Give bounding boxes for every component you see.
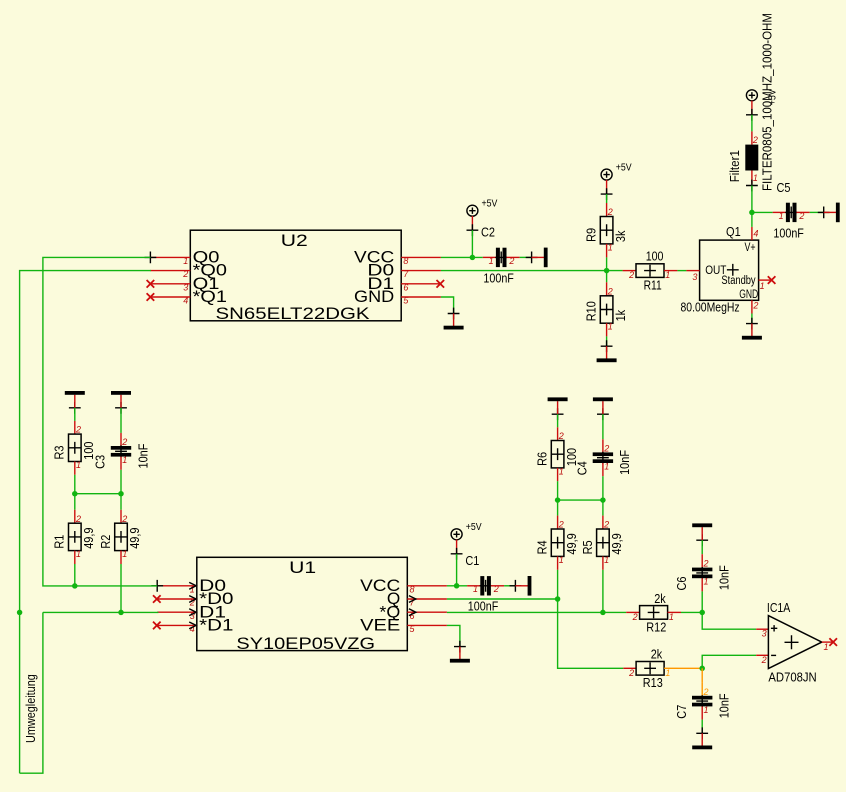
ground below C7 bbox=[692, 727, 712, 749]
op-amp IC1A triangle bbox=[768, 616, 821, 669]
U1 pin 4 clock arrow bbox=[189, 622, 196, 629]
wire node to C7 (highlight) bbox=[701, 668, 703, 683]
Filter1 origin cross bbox=[746, 180, 758, 192]
IC1A + input mark bbox=[771, 625, 777, 631]
resistor R13 2k bbox=[628, 647, 670, 691]
svg-text:10nF: 10nF bbox=[717, 693, 732, 718]
svg-text:2: 2 bbox=[761, 655, 767, 665]
svg-text:49,9: 49,9 bbox=[609, 533, 624, 554]
svg-text:1: 1 bbox=[183, 256, 188, 266]
wire ground to C3 bbox=[120, 408, 122, 433]
svg-text:2k: 2k bbox=[654, 591, 666, 606]
svg-text:Q1: Q1 bbox=[726, 225, 741, 239]
junction filter/C5/Q1 bbox=[749, 210, 755, 216]
wire U2 VCC to C2 bbox=[441, 256, 483, 258]
svg-text:2: 2 bbox=[703, 559, 709, 569]
svg-text:C7: C7 bbox=[674, 705, 689, 719]
wire +5V to U1 VCC net bbox=[456, 554, 458, 586]
svg-text:10nF: 10nF bbox=[617, 450, 632, 475]
C6 pin 1 stub bbox=[701, 578, 703, 591]
svg-text:4: 4 bbox=[753, 228, 758, 238]
C2 pin 1 stub bbox=[483, 256, 496, 258]
svg-text:R6: R6 bbox=[535, 452, 550, 466]
junction VCC/C2/+5V bbox=[470, 255, 476, 261]
wire ground to R3 bbox=[74, 408, 76, 421]
junction on detour net bbox=[17, 610, 23, 616]
R12 pin 2 stub bbox=[626, 611, 639, 613]
svg-text:100nF: 100nF bbox=[483, 270, 514, 285]
U1 pin 3 clock arrow bbox=[189, 609, 196, 616]
resistor R5 49,9 bbox=[580, 520, 624, 565]
U2 pin *Q1 no-connect X bbox=[147, 293, 155, 301]
Q1 origin cross bbox=[727, 264, 739, 276]
wire R11 to Q1 OUT bbox=[677, 270, 686, 272]
svg-text:C6: C6 bbox=[674, 577, 689, 591]
wire C1 to ground bbox=[504, 585, 515, 587]
svg-text:R3: R3 bbox=[52, 446, 67, 460]
wire Q1 GND pin to ground bbox=[751, 314, 753, 324]
svg-text:1: 1 bbox=[122, 549, 127, 559]
IC U1 outline bbox=[197, 557, 407, 650]
R13 pin 1 stub (highlight) bbox=[664, 667, 677, 669]
R1 pin 1 stub bbox=[74, 551, 76, 564]
svg-text:1: 1 bbox=[779, 211, 784, 221]
wire *Q0 net U2.2 down left side bbox=[20, 271, 151, 774]
junction C4/R5 bbox=[600, 497, 606, 503]
U1 pin 6 out arrow bbox=[409, 609, 416, 616]
junction R2 on D1 net bbox=[118, 610, 124, 616]
wire C3 to node bbox=[120, 470, 122, 494]
R10 pin 2 stub bbox=[606, 282, 608, 296]
svg-text:1: 1 bbox=[669, 612, 674, 622]
capacitor C2 100nF bbox=[481, 225, 514, 286]
C5 pin 2 stub bbox=[797, 211, 810, 213]
R5 pin 1 stub bbox=[602, 556, 604, 569]
svg-text:2: 2 bbox=[607, 207, 613, 217]
svg-text:1: 1 bbox=[608, 242, 613, 252]
svg-text:+5V: +5V bbox=[616, 163, 632, 174]
svg-text:C5: C5 bbox=[777, 180, 791, 195]
svg-text:1: 1 bbox=[704, 705, 709, 715]
svg-text:1: 1 bbox=[489, 256, 494, 266]
svg-text:2: 2 bbox=[607, 286, 613, 296]
svg-text:R13: R13 bbox=[643, 675, 663, 690]
wire ground to C4 bbox=[602, 414, 604, 439]
svg-text:R12: R12 bbox=[646, 619, 666, 634]
svg-text:49,9: 49,9 bbox=[127, 528, 142, 549]
svg-text:49,9: 49,9 bbox=[564, 533, 579, 554]
svg-text:R10: R10 bbox=[584, 301, 599, 321]
svg-text:1k: 1k bbox=[613, 309, 628, 321]
wire R3 to node bbox=[74, 475, 76, 494]
C6 pin 2 stub bbox=[701, 554, 703, 567]
supply +5V above C2 bbox=[467, 199, 498, 237]
junction C3/R2 bbox=[118, 491, 124, 497]
svg-text:R5: R5 bbox=[580, 540, 595, 554]
C1 pin 2 stub bbox=[491, 585, 504, 587]
svg-text:FILTER0805_100MHZ_1000-OHM: FILTER0805_100MHZ_1000-OHM bbox=[760, 13, 774, 191]
wire R2 to D1 net bbox=[120, 564, 122, 612]
wire ground to C6 bbox=[701, 540, 703, 554]
junction R6/R4 bbox=[555, 497, 561, 503]
wire node to R4 bbox=[557, 500, 559, 515]
U1 pin 1 clock arrow bbox=[189, 582, 196, 589]
wire *Q net U1.6 to R12 bbox=[447, 611, 626, 613]
svg-text:1: 1 bbox=[704, 577, 709, 587]
junction D0/R9/R10/R11 bbox=[604, 268, 610, 274]
wire node to op-amp non-inverting input bbox=[702, 612, 756, 629]
svg-text:1: 1 bbox=[760, 281, 765, 291]
C3 pin 1 stub bbox=[120, 457, 122, 470]
svg-text:C2: C2 bbox=[481, 225, 495, 240]
junction Q/R4 bbox=[555, 596, 561, 602]
R4 pin 2 stub bbox=[557, 516, 559, 529]
capacitor C4 10nF bbox=[575, 443, 633, 475]
svg-text:2: 2 bbox=[182, 269, 188, 279]
ground above C6 bbox=[692, 523, 712, 546]
svg-text:1: 1 bbox=[559, 466, 564, 476]
U1 pin *D0 no-connect X bbox=[153, 595, 161, 603]
U2 pin 4 stub bbox=[150, 296, 190, 298]
svg-text:80.00MegHz: 80.00MegHz bbox=[681, 301, 740, 315]
R11 pin 2 stub bbox=[623, 270, 636, 272]
svg-text:1: 1 bbox=[604, 462, 609, 472]
resistor R10 1k bbox=[584, 286, 628, 331]
R4 pin 1 stub bbox=[557, 556, 559, 569]
R9 pin 1 stub bbox=[606, 244, 608, 258]
svg-text:2: 2 bbox=[752, 300, 758, 310]
svg-text:Filter1: Filter1 bbox=[728, 150, 742, 182]
U1 pin 2 stub bbox=[157, 598, 197, 600]
wire R4 to Q net bbox=[557, 570, 559, 599]
capacitor C6 10nF bbox=[674, 559, 732, 591]
U1 origin cross at pin 1 bbox=[151, 580, 163, 592]
Q1 pin 4 V+ stub bbox=[751, 227, 753, 240]
U2 pin 3 stub bbox=[150, 283, 190, 285]
C4 pin 1 stub bbox=[602, 463, 604, 476]
svg-text:4: 4 bbox=[190, 624, 195, 634]
U2 pin 1 stub bbox=[150, 256, 190, 258]
svg-text:2: 2 bbox=[752, 135, 758, 145]
svg-text:2k: 2k bbox=[651, 647, 663, 662]
R1 pin 2 stub bbox=[74, 510, 76, 523]
ground below Q1 bbox=[742, 318, 762, 340]
svg-text:*D1: *D1 bbox=[199, 616, 233, 635]
svg-text:10nF: 10nF bbox=[717, 565, 732, 590]
Q1 pin 2 GND stub bbox=[751, 300, 753, 313]
wire C5 to ground bbox=[810, 211, 824, 213]
C3 pin 2 stub bbox=[120, 433, 122, 446]
wire +5V node to Q1 V+ bbox=[751, 212, 753, 227]
svg-text:C1: C1 bbox=[465, 553, 479, 568]
svg-text:2: 2 bbox=[558, 431, 564, 441]
svg-text:R9: R9 bbox=[584, 228, 599, 242]
svg-text:VEE: VEE bbox=[360, 616, 400, 635]
svg-text:*Q1: *Q1 bbox=[193, 287, 227, 306]
wire node to R1 bbox=[74, 494, 76, 510]
R9 pin 2 stub bbox=[606, 203, 608, 217]
R6 pin 2 stub bbox=[557, 427, 559, 440]
resistor R4 49,9 bbox=[535, 520, 579, 565]
svg-text:Standby: Standby bbox=[721, 275, 755, 287]
U2 pin 7 stub bbox=[401, 270, 441, 272]
svg-text:2: 2 bbox=[703, 687, 709, 697]
svg-text:U2: U2 bbox=[281, 231, 308, 250]
wire D0 net U2 pin7 to R11 bbox=[441, 270, 623, 272]
Filter1 pin 1 stub bbox=[751, 171, 753, 184]
R2 pin 1 stub bbox=[120, 551, 122, 564]
svg-text:1: 1 bbox=[122, 455, 127, 465]
svg-text:1: 1 bbox=[473, 584, 478, 594]
svg-text:IC1A: IC1A bbox=[767, 600, 791, 615]
supply +5V above R9 bbox=[601, 163, 632, 201]
capacitor C3 10nF bbox=[93, 437, 151, 469]
svg-text:3: 3 bbox=[692, 272, 697, 282]
wire detour bottom bbox=[20, 612, 43, 773]
wire Filter1 to junction bbox=[751, 186, 753, 213]
svg-text:2: 2 bbox=[121, 437, 127, 447]
svg-text:3: 3 bbox=[762, 628, 767, 638]
svg-text:6: 6 bbox=[403, 282, 408, 292]
svg-text:V+: V+ bbox=[745, 242, 756, 254]
svg-text:3k: 3k bbox=[613, 230, 628, 242]
svg-text:+5V: +5V bbox=[482, 199, 498, 210]
svg-text:8: 8 bbox=[403, 256, 408, 266]
capacitor C1 100nF bbox=[465, 553, 498, 614]
wire C2 to ground bbox=[520, 256, 532, 258]
wire +5V to VCC net bbox=[471, 230, 473, 257]
wire U2 GND pin to ground bbox=[441, 297, 454, 314]
wire node row left bbox=[75, 493, 121, 495]
ground above R6 bbox=[548, 397, 568, 420]
wire R5 to *Q net bbox=[602, 570, 604, 613]
U1 pin 5 stub bbox=[407, 624, 447, 626]
R3 pin 2 stub bbox=[74, 421, 76, 434]
junction *Q/R5 bbox=[600, 610, 606, 616]
svg-text:+5V: +5V bbox=[466, 522, 482, 533]
Q1 pin 3 OUT stub bbox=[686, 270, 699, 272]
U1 pin 1 stub bbox=[157, 585, 197, 587]
U2 pin Q1 no-connect X bbox=[147, 280, 155, 288]
C1 pin 1 stub bbox=[467, 585, 480, 587]
svg-text:2: 2 bbox=[75, 425, 81, 435]
svg-text:GND: GND bbox=[739, 289, 758, 301]
svg-text:R11: R11 bbox=[644, 278, 662, 293]
U2 pin 8 stub bbox=[401, 256, 441, 258]
svg-text:1: 1 bbox=[665, 668, 670, 678]
svg-text:1: 1 bbox=[608, 322, 613, 332]
wire +5V to Filter1 bbox=[751, 115, 753, 132]
R3 pin 1 stub bbox=[74, 462, 76, 475]
C5 pin 1 stub bbox=[773, 211, 786, 213]
U2 pin 5 stub bbox=[401, 296, 441, 298]
svg-text:SY10EP05VZG: SY10EP05VZG bbox=[236, 634, 375, 653]
svg-text:U1: U1 bbox=[289, 558, 316, 577]
junction R3/R1 bbox=[72, 491, 78, 497]
wire Q net down to R13 bbox=[558, 599, 624, 668]
IC1A - input mark bbox=[771, 654, 776, 656]
IC1A origin cross bbox=[785, 635, 799, 649]
Filter1 pin 2 stub bbox=[751, 131, 753, 144]
svg-text:C4: C4 bbox=[575, 461, 590, 475]
R11 pin 1 stub bbox=[664, 270, 677, 272]
wire C6 to node bbox=[701, 591, 703, 612]
wire +5V to R9 bbox=[606, 194, 608, 203]
wire R6 to node bbox=[557, 481, 559, 500]
junction R12/C6/op-amp+ bbox=[699, 610, 705, 616]
supply +5V above Filter1 bbox=[746, 89, 778, 121]
ground below R10 bbox=[597, 340, 617, 362]
svg-text:GND: GND bbox=[354, 287, 394, 306]
svg-text:2: 2 bbox=[603, 520, 609, 530]
svg-text:C3: C3 bbox=[93, 455, 108, 469]
ground right of C2 bbox=[526, 248, 548, 268]
wire node to op-amp inverting input bbox=[702, 655, 756, 668]
junction VCC/C1/+5V bbox=[454, 583, 460, 589]
svg-text:1: 1 bbox=[76, 460, 81, 470]
C4 pin 2 stub bbox=[602, 439, 604, 452]
svg-text:2: 2 bbox=[628, 668, 634, 678]
junction R13/C7/op-amp- bbox=[699, 666, 705, 672]
U1 pin 7 stub bbox=[407, 598, 447, 600]
wire R1 to D0 net bbox=[74, 564, 76, 586]
wire node row middle bbox=[558, 499, 603, 501]
C7 pin 2 stub (highlight) bbox=[701, 683, 703, 696]
C7 pin 1 stub bbox=[701, 706, 703, 719]
wire D0 net to R10 bbox=[606, 271, 608, 283]
U2 pin 6 stub bbox=[401, 283, 441, 285]
supply +5V above C1 bbox=[451, 522, 482, 560]
wire R13 to C7 node (highlight) bbox=[678, 667, 703, 669]
resistor R12 2k bbox=[632, 591, 674, 635]
ground above R3 bbox=[65, 391, 85, 414]
oscillator Q1 outline bbox=[700, 240, 759, 300]
svg-text:4: 4 bbox=[183, 296, 188, 306]
svg-text:1: 1 bbox=[665, 270, 670, 280]
resistor R9 3k bbox=[584, 207, 628, 252]
U2 pin D1 no-connect X bbox=[437, 280, 445, 288]
wire ground to R6 bbox=[557, 414, 559, 427]
svg-text:100nF: 100nF bbox=[468, 599, 499, 614]
ground right of C5 bbox=[818, 203, 840, 223]
svg-text:1: 1 bbox=[753, 173, 758, 183]
resistor R6 100 bbox=[535, 431, 579, 476]
capacitor C5 100nF bbox=[773, 180, 804, 240]
R5 pin 2 stub bbox=[602, 516, 604, 529]
junction R1 on Q0 net bbox=[72, 583, 78, 589]
svg-text:2: 2 bbox=[121, 514, 127, 524]
U1 pin 6 stub bbox=[407, 611, 447, 613]
svg-text:R4: R4 bbox=[535, 540, 550, 554]
R6 pin 1 stub bbox=[557, 468, 559, 481]
svg-text:2: 2 bbox=[75, 514, 81, 524]
svg-text:SN65ELT22DGK: SN65ELT22DGK bbox=[216, 304, 371, 323]
svg-text:6: 6 bbox=[410, 611, 415, 621]
wire node to R2 bbox=[120, 494, 122, 510]
U1 pin 8 stub bbox=[407, 585, 447, 587]
wire node to R5 bbox=[602, 500, 604, 515]
Q1 pin 1 no-connect X bbox=[768, 276, 776, 284]
U1 pin 4 stub bbox=[157, 624, 197, 626]
ground right of C1 bbox=[510, 576, 532, 596]
filter Filter1 body bbox=[745, 145, 758, 171]
svg-text:8: 8 bbox=[410, 584, 415, 594]
svg-text:100nF: 100nF bbox=[773, 225, 804, 240]
R12 pin 1 stub bbox=[668, 611, 681, 613]
svg-text:2: 2 bbox=[603, 443, 609, 453]
resistor R11 100 bbox=[628, 248, 670, 292]
svg-text:1: 1 bbox=[559, 555, 564, 565]
svg-text:2: 2 bbox=[628, 270, 634, 280]
IC U2 outline bbox=[190, 230, 401, 321]
svg-text:2: 2 bbox=[632, 612, 638, 622]
IC1A pin 1 no-connect X bbox=[829, 638, 837, 646]
IC1A pin 2 stub bbox=[756, 654, 768, 656]
wire Q0 net U2.1 to U1.1 bbox=[43, 257, 157, 586]
resistor R1 49,9 bbox=[52, 514, 96, 559]
wire C7 to ground bbox=[701, 720, 703, 734]
ground below U2 bbox=[444, 308, 464, 330]
svg-text:100: 100 bbox=[646, 248, 664, 263]
C2 pin 2 stub bbox=[507, 256, 520, 258]
U1 pin 2 clock arrow bbox=[189, 596, 196, 603]
svg-text:1: 1 bbox=[604, 555, 609, 565]
svg-text:3: 3 bbox=[190, 611, 195, 621]
U1 pin *D1 no-connect X bbox=[153, 622, 161, 630]
svg-text:AD708JN: AD708JN bbox=[768, 669, 816, 684]
svg-text:1: 1 bbox=[824, 642, 829, 652]
svg-text:1: 1 bbox=[190, 584, 195, 594]
wire R12 to C6 node bbox=[681, 611, 702, 613]
ground above C4 bbox=[593, 397, 613, 420]
wire R10 to ground bbox=[606, 336, 608, 346]
IC1A pin 3 stub bbox=[756, 628, 768, 630]
wire junction to C5 bbox=[752, 211, 773, 213]
U2 pin 2 stub bbox=[150, 270, 190, 272]
R10 pin 1 stub bbox=[606, 323, 608, 336]
svg-text:10nF: 10nF bbox=[135, 444, 150, 469]
U1 pin 7 out arrow bbox=[409, 596, 416, 603]
R13 pin 2 stub bbox=[623, 667, 636, 669]
svg-text:R1: R1 bbox=[52, 535, 67, 549]
U2 origin cross at pin 1 bbox=[145, 252, 157, 264]
svg-text:2: 2 bbox=[558, 520, 564, 530]
IC1A pin 1 output stub bbox=[822, 641, 833, 643]
R2 pin 2 stub bbox=[120, 510, 122, 523]
wire U1 VCC to C1 bbox=[447, 585, 467, 587]
ground below U1 VEE bbox=[450, 641, 470, 663]
wire U1 VEE to ground bbox=[447, 625, 460, 646]
svg-text:Umwegleitung: Umwegleitung bbox=[24, 674, 38, 743]
resistor R3 100 bbox=[52, 425, 96, 470]
svg-text:49,9: 49,9 bbox=[81, 528, 96, 549]
wire R9 to D0 net bbox=[606, 257, 608, 270]
wire detour to U1.3 bbox=[43, 611, 158, 613]
ground above C3 bbox=[111, 391, 131, 414]
resistor R2 49,9 bbox=[98, 514, 142, 559]
U1 pin 3 stub bbox=[157, 611, 197, 613]
wire C4 to node bbox=[602, 476, 604, 500]
Q1 pin 1 Standby stub bbox=[759, 279, 772, 281]
svg-text:1: 1 bbox=[76, 549, 81, 559]
svg-text:R2: R2 bbox=[98, 535, 113, 549]
svg-text:3: 3 bbox=[183, 282, 188, 292]
capacitor C7 10nF bbox=[674, 687, 732, 719]
wire Q net U1.7 to R4 junction bbox=[447, 598, 558, 600]
